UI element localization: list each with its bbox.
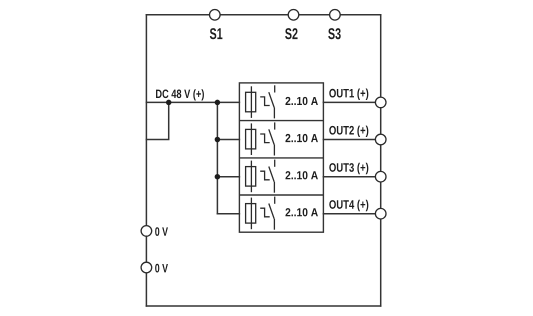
label S2 xyxy=(285,28,297,39)
value label 2..10 A channel 3 xyxy=(285,171,317,179)
terminal 0 V upper xyxy=(141,226,152,237)
breaker module box xyxy=(239,83,323,232)
switch channel 3 xyxy=(260,160,275,193)
wire OUT2 xyxy=(323,139,380,141)
label S3 xyxy=(328,28,341,39)
switch channel 1 xyxy=(260,85,275,118)
label node DC 48 V (+) xyxy=(156,89,204,100)
label OUT2 (+) xyxy=(329,126,368,137)
label OUT3 (+) xyxy=(329,163,368,174)
wire OUT3 xyxy=(323,176,380,178)
value label 2..10 A channel 1 xyxy=(285,97,317,105)
terminal OUT4 xyxy=(375,208,386,219)
fuse channel 4 xyxy=(246,198,256,230)
fuse channel 3 xyxy=(246,161,256,193)
wire distribution bus xyxy=(216,102,218,213)
value label 2..10 A channel 4 xyxy=(285,208,317,216)
terminal OUT1 xyxy=(375,97,386,108)
label 0 V lower xyxy=(155,264,168,273)
terminal OUT3 xyxy=(375,171,386,182)
label S1 xyxy=(210,28,223,39)
wire OUT4 xyxy=(323,213,380,215)
wire frame left xyxy=(145,15,147,306)
switch channel 4 xyxy=(260,197,275,230)
wire feed loop xyxy=(146,102,168,139)
label OUT4 (+) xyxy=(329,200,368,211)
label 0 V upper xyxy=(155,227,168,236)
fuse channel 2 xyxy=(246,123,256,155)
switch channel 2 xyxy=(260,122,275,155)
terminal S3 xyxy=(330,10,341,21)
junction dot bus channel 2 xyxy=(215,137,221,143)
junction dot bus top xyxy=(215,100,221,106)
divider channel 2/3 xyxy=(239,157,323,159)
wire tap channel 3 xyxy=(217,176,239,178)
wire tap channel 4 xyxy=(217,213,239,215)
wire OUT1 xyxy=(323,101,380,103)
junction dot DC feed xyxy=(166,100,172,106)
wire frame right xyxy=(380,15,382,306)
terminal OUT2 xyxy=(375,134,386,145)
terminal S2 xyxy=(288,10,299,21)
junction dot bus channel 3 xyxy=(215,174,221,180)
wire frame top xyxy=(146,14,380,16)
label OUT1 (+) xyxy=(329,88,368,99)
terminal S1 xyxy=(210,10,221,21)
divider channel 3/4 xyxy=(239,194,323,196)
value label 2..10 A channel 2 xyxy=(285,134,317,142)
wire tap channel 2 xyxy=(217,139,239,141)
wire DC 48 V feed xyxy=(146,101,239,103)
divider channel 1/2 xyxy=(239,120,323,122)
terminal 0 V lower xyxy=(141,262,152,273)
wire frame bottom xyxy=(146,305,380,307)
fuse channel 1 xyxy=(246,86,256,118)
